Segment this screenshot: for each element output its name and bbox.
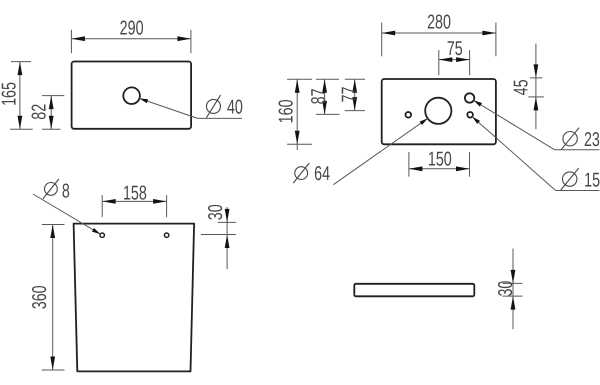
dim 280 arrows bbox=[382, 31, 396, 36]
dim 82 line bbox=[50, 96, 52, 130]
dim 82 ticks bbox=[42, 95, 64, 97]
leader D40 arrowhead bbox=[139, 98, 148, 103]
svg-text:360: 360 bbox=[29, 285, 51, 309]
view1 hole D40 bbox=[123, 87, 140, 104]
svg-text:280: 280 bbox=[427, 12, 451, 34]
view1 lid outline bbox=[72, 62, 192, 129]
dim 45 ticks bbox=[530, 77, 543, 79]
svg-text:160: 160 bbox=[276, 99, 298, 123]
dim 82 arrows bbox=[49, 96, 54, 110]
dim 30 line (view3) bbox=[226, 207, 228, 269]
svg-text:158: 158 bbox=[123, 183, 147, 205]
svg-text:82: 82 bbox=[29, 104, 51, 120]
svg-text:30: 30 bbox=[205, 204, 227, 220]
dim 77 ticks bbox=[345, 78, 365, 80]
dim 75 extension lines bbox=[438, 50, 440, 75]
label D23 symbol bbox=[563, 132, 577, 146]
svg-text:165: 165 bbox=[0, 82, 21, 106]
dim 150 arrows bbox=[409, 166, 423, 171]
dim 160 ticks bbox=[287, 78, 312, 80]
dim 77 arrows bbox=[352, 79, 357, 93]
leader D64 arrowhead bbox=[420, 118, 428, 125]
dim 280 line bbox=[382, 32, 496, 34]
view2 tank outline bbox=[382, 79, 496, 144]
leader D15 arrowhead bbox=[472, 117, 480, 124]
leader D64 bbox=[333, 118, 427, 184]
dim 280 extension lines bbox=[381, 23, 383, 57]
dim 158 line bbox=[102, 200, 166, 202]
dim 290 line bbox=[71, 38, 190, 40]
dim 45 line bbox=[535, 44, 537, 130]
svg-text:23: 23 bbox=[584, 129, 600, 151]
svg-text:64: 64 bbox=[314, 163, 330, 185]
svg-text:8: 8 bbox=[62, 181, 70, 203]
dim 75 arrows bbox=[439, 57, 453, 62]
dim 30 line (view4) bbox=[512, 249, 514, 330]
dim 165 line bbox=[19, 62, 21, 130]
view4 lid side outline bbox=[354, 284, 474, 297]
dim 165 ticks bbox=[11, 61, 31, 63]
svg-text:30: 30 bbox=[495, 281, 517, 297]
dim 87 arrows bbox=[322, 79, 327, 93]
dim 87 ticks bbox=[316, 78, 339, 80]
dim 45 arrows bbox=[534, 64, 539, 78]
dim 290 arrows bbox=[71, 36, 85, 41]
dim 360 line bbox=[52, 225, 54, 371]
dim 30 ticks (view4) bbox=[503, 282, 523, 284]
dim 158 arrows bbox=[102, 199, 116, 204]
dim 158 extension lines bbox=[101, 195, 103, 217]
svg-text:40: 40 bbox=[227, 97, 243, 119]
view2 hole D23 bbox=[465, 93, 474, 102]
dim 160 arrows bbox=[295, 79, 300, 93]
svg-text:75: 75 bbox=[447, 38, 463, 60]
leader D23 arrowhead bbox=[474, 100, 482, 106]
view2 left small hole bbox=[406, 112, 412, 118]
view3 tank side outline bbox=[74, 224, 195, 372]
dim 290 extension lines bbox=[70, 30, 72, 53]
leader D8 arrowhead bbox=[92, 228, 100, 234]
dim 75 line bbox=[439, 59, 470, 61]
label D64 symbol bbox=[295, 167, 308, 180]
svg-text:45: 45 bbox=[510, 79, 532, 95]
leader D23 bbox=[474, 100, 555, 149]
dim 30 ticks (view3) bbox=[218, 221, 236, 223]
view3 left hole D8 bbox=[100, 233, 104, 237]
view2 hole D64 bbox=[425, 98, 451, 124]
label D15 symbol bbox=[563, 172, 577, 186]
label D40 symbol bbox=[207, 99, 221, 113]
label D8 symbol bbox=[45, 183, 58, 196]
dim 360 ticks bbox=[42, 224, 65, 226]
svg-text:15: 15 bbox=[584, 170, 600, 192]
dim 77 line bbox=[354, 79, 356, 110]
view3 right hole D8 bbox=[164, 233, 168, 237]
dim 160 line bbox=[296, 79, 298, 150]
leader D8 bbox=[33, 194, 100, 234]
dim 87 line bbox=[324, 79, 326, 114]
dim 150 extension lines bbox=[408, 152, 410, 177]
dim 360 arrows bbox=[50, 225, 55, 239]
dim 150 line bbox=[409, 168, 470, 170]
svg-text:87: 87 bbox=[308, 88, 330, 104]
leader D15 bbox=[472, 117, 555, 191]
leader D40 bbox=[139, 98, 197, 118]
dim 165 arrows bbox=[18, 62, 23, 76]
svg-text:77: 77 bbox=[339, 87, 361, 103]
view2 hole D15 bbox=[467, 112, 473, 118]
dim 30 arrows (view3) bbox=[225, 209, 230, 223]
svg-text:150: 150 bbox=[428, 149, 452, 171]
dim 30 arrows (view4) bbox=[511, 270, 516, 284]
svg-text:290: 290 bbox=[120, 18, 144, 40]
